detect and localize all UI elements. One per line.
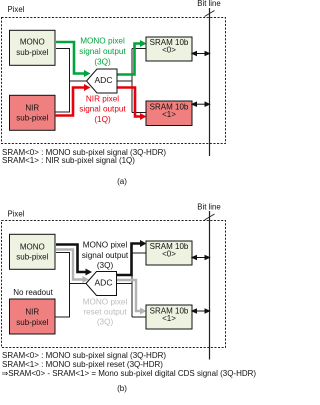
- svg-text:sub-pixel: sub-pixel: [16, 318, 48, 327]
- pixel boundary dashed box (a): [2, 18, 226, 144]
- MONO sub-pixel box (a): [10, 30, 56, 65]
- svg-text:ADC: ADC: [95, 278, 113, 288]
- green signal arrow ADC to SRAM0 (a): [117, 40, 147, 75]
- svg-text:<1>: <1>: [162, 314, 176, 323]
- svg-text:(a): (a): [117, 177, 127, 186]
- bit line (b): [209, 211, 211, 360]
- pixel boundary dashed box (b): [2, 221, 226, 348]
- NIR sub-pixel box (a): [10, 95, 56, 130]
- svg-text:MONO: MONO: [20, 242, 45, 251]
- svg-text:Pixel: Pixel: [8, 5, 25, 14]
- bidirectional arrow SRAM1 to bit line (b): [192, 309, 210, 313]
- bit line (a): [209, 8, 211, 156]
- svg-text:sub-pixel: sub-pixel: [16, 114, 48, 123]
- svg-text:Bit line: Bit line: [197, 0, 220, 8]
- NIR sub-pixel box (b): [10, 299, 56, 334]
- ADC block U2 (b): [86, 272, 117, 296]
- wire junction to SRAM1 (a): [132, 112, 146, 114]
- gray reset arrow ADC to SRAM1 (b): [117, 280, 147, 315]
- SRAM 10b <1> box (a): [146, 101, 192, 126]
- svg-text:MONO pixel: MONO pixel: [80, 37, 125, 46]
- svg-text:⇒SRAM<0> - SRAM<1> = Mono sub-: ⇒SRAM<0> - SRAM<1> = Mono sub-pixel digi…: [2, 369, 257, 378]
- svg-text:NIR: NIR: [25, 103, 39, 112]
- svg-text:signal output: signal output: [79, 105, 126, 114]
- MONO sub-pixel box (b): [10, 234, 56, 269]
- svg-text:(b): (b): [117, 384, 127, 393]
- wire ADC output junction (b): [117, 283, 133, 285]
- svg-text:signal output: signal output: [79, 47, 126, 56]
- svg-text:Pixel: Pixel: [8, 210, 25, 219]
- svg-text:NIR pixel: NIR pixel: [86, 95, 119, 104]
- svg-text:reset output: reset output: [83, 308, 127, 317]
- SRAM 10b <0> box (a): [146, 37, 192, 61]
- svg-text:MONO pixel: MONO pixel: [83, 241, 128, 250]
- bidirectional arrow SRAM1 to bit line (a): [192, 102, 210, 106]
- svg-text:sub-pixel: sub-pixel: [16, 252, 48, 261]
- SRAM 10b <1> box (b): [146, 305, 192, 329]
- svg-text:SRAM<1> : NIR sub-pixel signal: SRAM<1> : NIR sub-pixel signal (1Q): [2, 156, 135, 165]
- svg-text:(3Q): (3Q): [97, 318, 114, 327]
- label MONO pixel signal output (3Q) black (b): [82, 241, 129, 271]
- svg-text:Bit line: Bit line: [197, 203, 220, 212]
- wire NIR to ADC (b): [55, 284, 70, 318]
- svg-text:SRAM<0> : MONO sub-pixel signa: SRAM<0> : MONO sub-pixel signal (3Q-HDR): [2, 351, 166, 360]
- svg-text:(3Q): (3Q): [94, 58, 111, 67]
- svg-text:<0>: <0>: [162, 249, 176, 258]
- wire junction to SRAM0 (b): [132, 252, 146, 254]
- svg-text:SRAM<1> : MONO sub-pixel reset: SRAM<1> : MONO sub-pixel reset (3Q-HDR): [2, 360, 163, 369]
- svg-text:signal output: signal output: [82, 251, 129, 260]
- label MONO pixel reset output (3Q) gray (b): [83, 298, 128, 327]
- svg-text:<0>: <0>: [162, 46, 176, 55]
- wire NIR to ADC (a): [55, 81, 70, 112]
- bus slash tick (b): [205, 214, 215, 220]
- svg-text:NIR: NIR: [25, 307, 39, 316]
- wire MONO to ADC (b): [56, 253, 86, 284]
- gray reset arrow MONO to ADC (b): [56, 250, 89, 284]
- label NIR pixel signal output (1Q) red (a): [79, 95, 126, 125]
- label MONO pixel signal output (3Q) green (a): [79, 37, 126, 67]
- red signal arrow NIR to ADC (a): [55, 84, 91, 116]
- bidirectional arrow SRAM0 to bit line (a): [192, 52, 210, 56]
- bidirectional arrow SRAM0 to bit line (b): [192, 256, 210, 260]
- black signal arrow ADC to SRAM0 (b): [117, 240, 147, 275]
- green signal arrow MONO to ADC (a): [56, 42, 91, 77]
- bus slash tick (a): [205, 11, 215, 17]
- svg-text:(1Q): (1Q): [94, 115, 111, 124]
- wire ADC output junction (a): [117, 80, 132, 82]
- black signal arrow MONO to ADC (b): [56, 245, 92, 276]
- red signal arrow ADC to SRAM1 (a): [117, 88, 147, 121]
- ADC block U1 (a): [87, 69, 118, 93]
- wire junction to SRAM0 (a): [132, 48, 146, 50]
- svg-text:<1>: <1>: [162, 110, 176, 119]
- svg-text:No readout: No readout: [13, 288, 53, 297]
- svg-text:ADC: ADC: [95, 75, 113, 85]
- wire junction to SRAM1 (b): [132, 316, 146, 318]
- svg-text:MONO: MONO: [20, 38, 45, 47]
- svg-text:(3Q): (3Q): [97, 261, 114, 270]
- svg-text:sub-pixel: sub-pixel: [16, 48, 48, 57]
- svg-text:MONO pixel: MONO pixel: [83, 298, 128, 307]
- wire MONO to ADC (a): [56, 49, 87, 82]
- SRAM 10b <0> box (b): [146, 241, 192, 265]
